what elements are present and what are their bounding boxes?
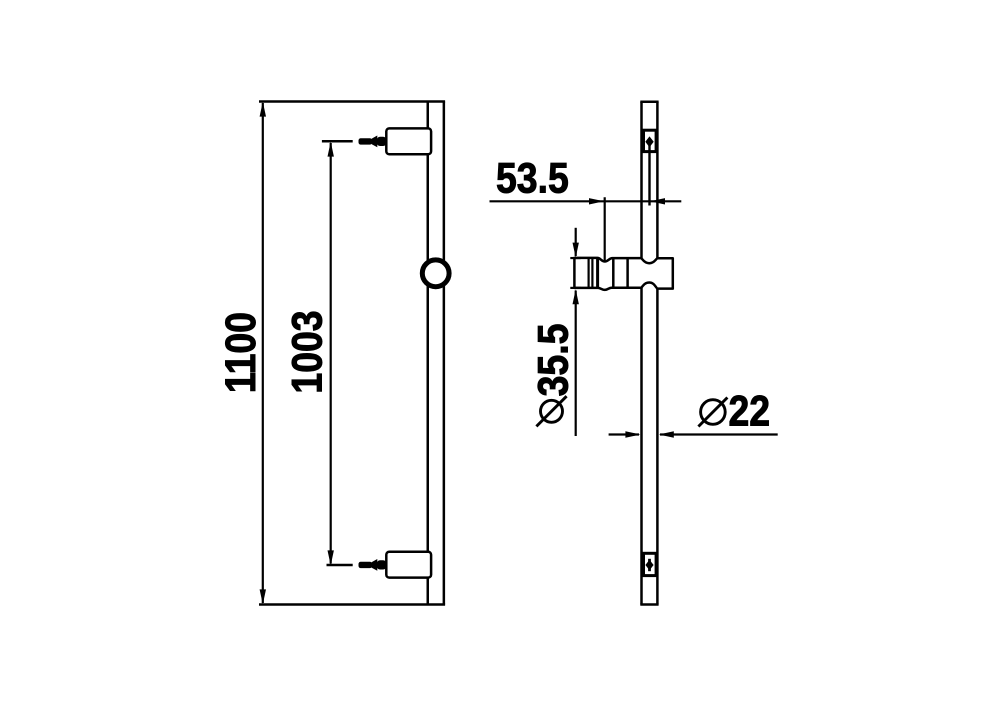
slider body outline xyxy=(574,258,672,290)
arrow up 1003 xyxy=(328,142,334,157)
arrow left 53.5 xyxy=(650,198,665,204)
slider ridge lines xyxy=(589,258,628,288)
slider knob circle on rail xyxy=(422,260,449,287)
svg-text:53.5: 53.5 xyxy=(496,154,569,202)
arrow right 22 xyxy=(625,431,640,437)
top bracket screw xyxy=(359,136,387,148)
svg-text:35.5: 35.5 xyxy=(529,324,577,397)
arrow down 1100 xyxy=(260,589,266,604)
arrow up 1100 xyxy=(260,102,266,117)
arrow up 35.5 xyxy=(573,289,579,304)
dimension 35.5 upper line xyxy=(575,228,577,256)
svg-text:1100: 1100 xyxy=(216,312,264,393)
top wall bracket box xyxy=(386,128,431,154)
label 22 diameter symbol xyxy=(698,398,727,427)
tick bottom 1003 xyxy=(327,564,353,567)
dimension 22 left line xyxy=(609,433,639,435)
bottom bracket screw xyxy=(359,559,387,571)
top mount screw diamond xyxy=(645,136,653,147)
bottom mount screw diamond xyxy=(648,559,651,571)
right view: rail front xyxy=(640,102,658,605)
bottom mount plate xyxy=(644,553,657,575)
dimension 53.5 line xyxy=(490,200,682,202)
left view: rail side profile xyxy=(428,102,444,605)
svg-text:22: 22 xyxy=(728,387,770,435)
svg-text:1003: 1003 xyxy=(283,310,331,393)
dimension line 1003 xyxy=(330,143,332,564)
dimension 22 right line xyxy=(660,433,778,435)
arrow down 35.5 xyxy=(573,243,579,258)
arrow right 53.5 xyxy=(589,198,604,204)
extension line handle axis xyxy=(604,197,606,261)
tick top 1003 xyxy=(322,140,353,143)
left view top edge line xyxy=(259,100,445,103)
left view bottom edge line xyxy=(259,603,445,606)
arrow down 1003 xyxy=(328,550,334,565)
tick bottom 35.5 xyxy=(570,287,580,289)
tick top 35.5 xyxy=(570,257,580,259)
label 35.5 diameter symbol xyxy=(536,396,566,426)
bottom wall bracket box xyxy=(386,552,431,578)
centreline from top mount xyxy=(648,145,650,206)
top mount plate xyxy=(644,130,657,151)
arrow left 22 xyxy=(659,431,674,437)
dimension line 1100 xyxy=(262,103,264,603)
dimension 35.5 lower line xyxy=(575,291,577,437)
